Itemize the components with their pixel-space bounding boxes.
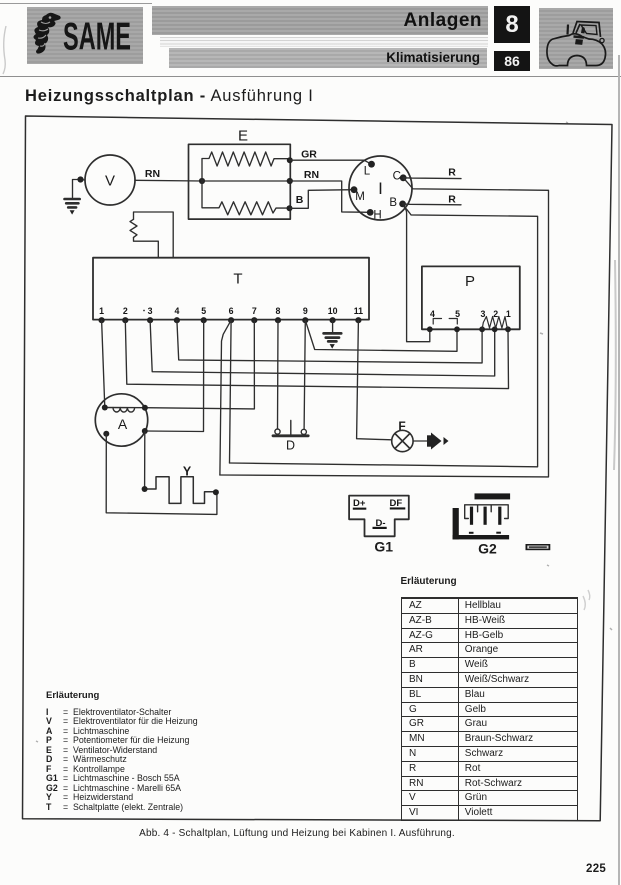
P pin 3 (479, 309, 485, 332)
svg-text:C: C (393, 171, 401, 183)
node Y right (213, 489, 219, 495)
dashed link P4-P5 (433, 319, 457, 325)
svg-text:3: 3 (480, 309, 485, 319)
ground at T10 (324, 333, 342, 348)
node A bottom-right (142, 428, 148, 434)
svg-text:4: 4 (430, 309, 435, 319)
svg-text:3: 3 (148, 306, 153, 316)
title (25, 87, 314, 106)
svg-text:R: R (448, 167, 456, 179)
wire F to buzzer (413, 440, 427, 442)
wire V to ground (73, 180, 86, 198)
T pin 9 (302, 306, 308, 323)
resistor box E (189, 144, 291, 219)
node A top-left (102, 405, 108, 411)
wire GR: E upper to switch L (290, 160, 372, 164)
resistor E lower (202, 181, 290, 215)
P pin 2 (492, 309, 498, 332)
generator plug G2 (453, 493, 511, 539)
svg-text:GR: GR (301, 149, 317, 161)
wire T9 to D (304, 320, 305, 429)
svg-text:R: R (448, 194, 456, 206)
wire V to E (RN) (135, 179, 202, 182)
alternator A (95, 394, 147, 446)
wire E mid to E right (202, 180, 290, 182)
svg-text:F: F (398, 419, 405, 433)
SAME logo gray box (27, 7, 143, 64)
wire T6 to wrap B (230, 320, 232, 463)
T pin 5 (201, 306, 207, 323)
pin M (351, 186, 358, 193)
wire T2 to P1 (125, 320, 508, 388)
wire T5 to A (145, 320, 204, 431)
svg-text:2: 2 (123, 306, 128, 316)
svg-text:RN: RN (304, 169, 319, 181)
svg-text:10: 10 (328, 306, 338, 316)
svg-text:B: B (389, 197, 397, 209)
P pin 5 (454, 309, 460, 332)
svg-text:8: 8 (276, 306, 281, 316)
relay box T (93, 258, 369, 320)
wire T11 to F (357, 320, 392, 440)
svg-text:I: I (378, 179, 383, 198)
svg-text:2: 2 (493, 309, 498, 319)
svg-text:A: A (118, 416, 128, 432)
pin H (367, 209, 374, 216)
wire A bottom-left to Y right (106, 434, 217, 515)
svg-text:T: T (233, 271, 242, 288)
T pin 3 (143, 306, 153, 323)
T pin 1 (99, 306, 105, 323)
svg-text:4: 4 (174, 306, 179, 316)
wire T3 to P2 (150, 320, 495, 376)
node A top-right (142, 405, 148, 411)
generator plug G1 (349, 496, 409, 537)
coil in A (105, 407, 145, 409)
T pin 11 (354, 306, 363, 323)
svg-text:B: B (296, 194, 304, 206)
svg-text:7: 7 (252, 306, 257, 316)
tractor icon (539, 8, 613, 69)
control lamp F (392, 430, 413, 451)
node Y left (142, 486, 148, 492)
wire T6 jog to wrap C (220, 320, 231, 475)
wire RN: E mid to switch H (290, 181, 370, 212)
wire T1 to A (102, 320, 105, 407)
wire A bottom-right down to Y left (144, 431, 146, 489)
P pin 4 (427, 309, 435, 332)
node A bottom-left (103, 431, 109, 437)
svg-text:D: D (286, 439, 295, 453)
wire B wrap to T6 (230, 207, 538, 467)
wire B: E lower to switch M (290, 190, 355, 209)
left legend (46, 690, 99, 701)
wire resistor bottom to T (134, 237, 159, 257)
svg-text:D+: D+ (353, 498, 366, 509)
T pin 10 (328, 306, 338, 323)
T pin 8 (275, 306, 281, 323)
svg-text:6: 6 (229, 306, 234, 316)
svg-text:5: 5 (201, 306, 206, 316)
svg-text:V: V (105, 173, 115, 190)
resistor E upper (202, 152, 290, 181)
ignition switch I (349, 156, 412, 220)
page number (586, 863, 606, 875)
svg-text:DF: DF (390, 498, 403, 509)
svg-text:1: 1 (506, 309, 511, 319)
svg-text:5: 5 (455, 309, 460, 319)
svg-text:11: 11 (354, 306, 363, 316)
wire T8 to D (277, 320, 280, 428)
Anlagen bar (152, 6, 488, 35)
electroventilator V (85, 155, 135, 205)
svg-text:L: L (364, 166, 371, 178)
wire T10 to ground (332, 320, 334, 332)
pin C (400, 174, 407, 181)
T pin 7 (251, 306, 257, 323)
wire resistor top to T (134, 212, 174, 258)
wire T9 to P5 (305, 320, 457, 351)
svg-text:P: P (465, 273, 475, 290)
color table (401, 576, 457, 587)
thermal switch D (273, 421, 308, 436)
svg-text:M: M (355, 191, 365, 203)
wire R stub from C (403, 177, 461, 180)
resistor above T (130, 219, 137, 237)
86 box (494, 51, 530, 71)
svg-text:9: 9 (303, 306, 308, 316)
ground at V (65, 199, 80, 215)
svg-text:H: H (373, 210, 381, 222)
svg-text:RN: RN (145, 168, 160, 180)
wire T7 to A (145, 320, 255, 409)
resistor P3-P1 (482, 317, 508, 330)
wire T4 to P3 (177, 320, 482, 363)
T pin 2 (122, 306, 128, 323)
Klimatisierung bar (169, 48, 487, 68)
wire R stub from B (403, 203, 461, 206)
page top hairline (0, 3, 152, 4)
svg-text:1: 1 (99, 306, 104, 316)
svg-text:E: E (238, 128, 248, 145)
heater resistor Y (145, 477, 216, 504)
part number tag (526, 544, 551, 550)
fuzzy text band (160, 37, 488, 47)
svg-text:G1: G1 (374, 539, 393, 555)
8 box (494, 6, 530, 43)
node E mid junction (199, 178, 205, 184)
right page edge (618, 55, 620, 885)
pin B (399, 201, 406, 208)
potentiometer box P (422, 266, 520, 329)
P pin 1 (505, 309, 511, 332)
diagram frame (23, 116, 613, 821)
caption (0, 828, 594, 839)
T pin 6 (228, 306, 234, 323)
svg-text:G2: G2 (478, 541, 497, 557)
svg-text:Y: Y (183, 465, 192, 479)
header separator (0, 76, 621, 77)
pin L (368, 161, 375, 168)
buzzer symbol (427, 433, 449, 450)
T pin 4 (174, 306, 180, 323)
wire B down to P4 (404, 206, 430, 342)
wire C wrap to T6 jog (220, 178, 549, 477)
